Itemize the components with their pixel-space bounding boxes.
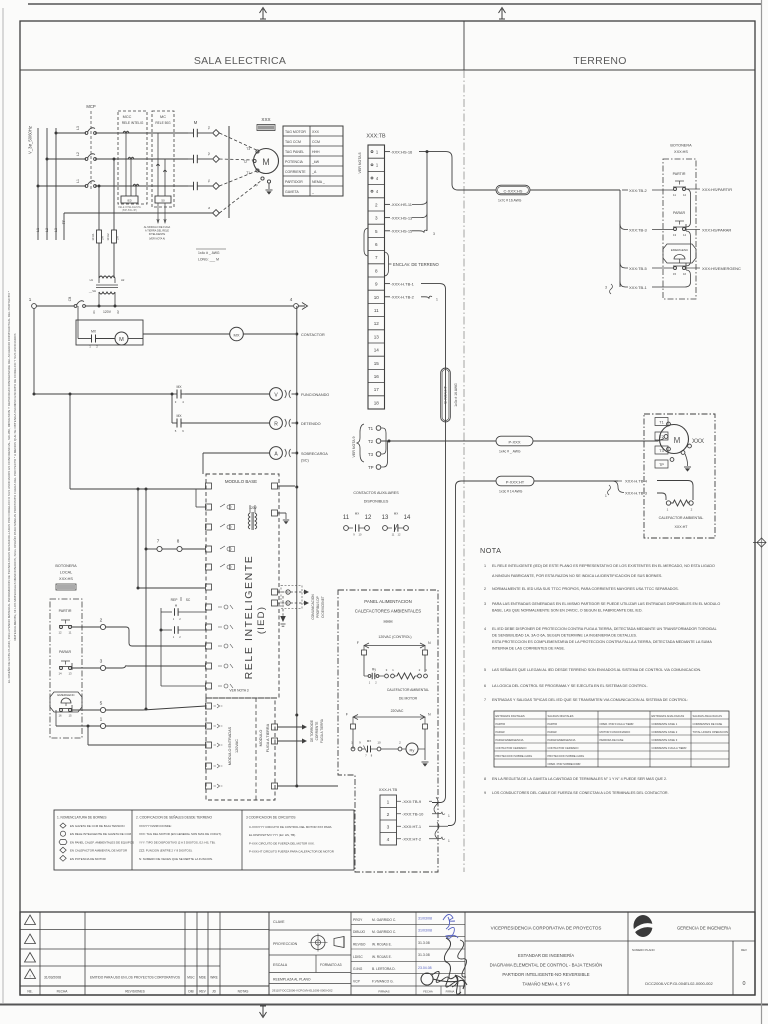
- svg-text:MX: MX: [234, 332, 240, 337]
- svg-text:EN CALEFACTOR AMBIENTAL DE MOT: EN CALEFACTOR AMBIENTAL DE MOTOR: [70, 849, 127, 853]
- svg-text:11: 11: [673, 193, 676, 197]
- HT pair split: [612, 481, 624, 493]
- internal input glyph: [218, 644, 233, 648]
- svg-text:F: F: [346, 713, 349, 717]
- wire 3 from PARAR: [72, 667, 101, 669]
- svg-text:1x4c # _ AWG: 1x4c # _ AWG: [499, 450, 521, 454]
- svg-text:PROTECCION SOBRE-CARG: PROTECCION SOBRE-CARG: [496, 754, 533, 758]
- svg-text:M: M: [194, 120, 198, 125]
- module terminal: [206, 546, 212, 552]
- breaker MCP linkage dashed: [90, 111, 92, 190]
- module divider dashed: [255, 698, 257, 800]
- svg-text:ESTA PROTECCION ES COMPLEMENTA: ESTA PROTECCION ES COMPLEMENTARIA DE LA …: [492, 640, 712, 644]
- registration mark top 2: [499, 8, 506, 20]
- svg-text:EL DISPOSITIVO YYY (EJ: HS, TB: EL DISPOSITIVO YYY (EJ: HS, TB).: [249, 833, 296, 837]
- svg-text:XXX:TB-1: XXX:TB-1: [629, 285, 648, 290]
- svg-text:MATERIALMENTE, NI LOS MATERIAL: MATERIALMENTE, NI LOS MATERIALES MENCION…: [12, 333, 17, 640]
- mini strip wire HT-2: [397, 838, 402, 840]
- revision rows: [20, 929, 269, 931]
- svg-text:EN PANEL CALEF. AMBIENTALES DE: EN PANEL CALEF. AMBIENTALES DE EQUIPOS: [70, 840, 134, 844]
- lamp A SOBRECARGA: [270, 447, 283, 460]
- svg-text:3: 3: [386, 668, 388, 672]
- zone divider dash-dot: [463, 70, 465, 872]
- svg-text:CLAVE: CLAVE: [273, 920, 285, 924]
- svg-text:1: 1: [605, 494, 607, 498]
- motor data table: [283, 126, 343, 196]
- svg-text:4: 4: [182, 400, 184, 404]
- svg-text:T2: T2: [243, 160, 247, 164]
- svg-text:1. NOMENCLATURA DE BORNES: 1. NOMENCLATURA DE BORNES: [57, 816, 107, 820]
- svg-text:REP: REP: [171, 598, 179, 602]
- svg-text:10: 10: [377, 741, 381, 745]
- lamp V FUNCIONANDO: [270, 388, 283, 401]
- contactor M pole: [193, 129, 195, 137]
- signature scribbles: [443, 914, 455, 929]
- EMERGENC mushroom button: [50, 692, 82, 712]
- module entradas/fuga dashed box: [206, 698, 275, 800]
- cable tag C-XXX:HS: [496, 185, 530, 195]
- svg-text:XXX:HS/PARTIR: XXX:HS/PARTIR: [702, 187, 732, 192]
- svg-text:DISPONIBLES: DISPONIBLES: [364, 500, 389, 504]
- breaker CB: [74, 305, 77, 308]
- right control bus vertical: [296, 306, 298, 489]
- svg-text:PARAR EMERGENCIA: PARAR EMERGENCIA: [548, 738, 576, 742]
- wire P-XXX:HT: [461, 480, 496, 482]
- svg-text:EMERGENC: EMERGENC: [57, 693, 75, 697]
- svg-text:DE TORROIDE: DE TORROIDE: [310, 720, 314, 742]
- mini strip wire TB-9: [397, 800, 402, 802]
- fuse 1FU1: [97, 230, 102, 243]
- svg-text:G.ING: G.ING: [353, 967, 363, 971]
- svg-text:2: 2: [399, 741, 401, 745]
- scan left edge: [2, 8, 4, 1003]
- motor M TERRENO: [660, 425, 689, 454]
- svg-text:EN POTENCIA DE MOTOR: EN POTENCIA DE MOTOR: [70, 857, 106, 861]
- bus L2 vertical: [46, 128, 48, 240]
- svg-text:CORRIENTE FASE 2: CORRIENTE FASE 2: [652, 730, 678, 734]
- gerencia header: [627, 912, 629, 941]
- svg-text:3: 3: [433, 232, 435, 236]
- svg-text:23.04.08: 23.04.08: [418, 966, 432, 970]
- svg-text:REVISIONES: REVISIONES: [125, 990, 145, 994]
- fuse 1FU2: [112, 230, 117, 243]
- module terminal: [206, 604, 212, 610]
- svg-text:12: 12: [398, 533, 401, 537]
- svg-text:MC: MC: [160, 115, 166, 119]
- svg-text:T2: T2: [659, 435, 663, 439]
- svg-text:TAMAÑO NEMA 4, 5 Y 6: TAMAÑO NEMA 4, 5 Y 6: [522, 982, 570, 987]
- svg-text:3: 3: [605, 286, 607, 290]
- wire XXX:HS-15: [385, 230, 391, 232]
- MX coil: [230, 327, 244, 341]
- module terminal: [206, 663, 212, 669]
- svg-text:XXX:HS/EMERGENC: XXX:HS/EMERGENC: [702, 266, 741, 271]
- svg-text:DETENIDO: DETENIDO: [301, 422, 321, 426]
- svg-text:NE.: NE.: [27, 990, 32, 994]
- ground/neutral wire G: [64, 212, 213, 214]
- svg-text:N: N: [428, 641, 431, 645]
- svg-text:1: 1: [29, 297, 32, 302]
- svg-text:HHH: HHH: [312, 150, 320, 154]
- svg-text:W. ROJAS E.: W. ROJAS E.: [372, 955, 392, 959]
- node L3 tap: [55, 132, 58, 135]
- svg-text:2: 2: [387, 812, 390, 818]
- bracket rows left: [364, 228, 368, 256]
- svg-text:EL RELE INTELIGENTE (IED) DE E: EL RELE INTELIGENTE (IED) DE ESTE PLANO …: [492, 564, 715, 568]
- svg-text:XXX:HT: XXX:HT: [675, 525, 689, 529]
- node L2 tap: [46, 158, 49, 161]
- svg-text:MGC: MGC: [187, 976, 195, 980]
- svg-text:XXX: TAG DEL MOTOR (EN GENERAL: XXX: TAG DEL MOTOR (EN GENERAL SON MAS D…: [139, 832, 222, 836]
- terreno left bus: [619, 190, 621, 287]
- svg-text:1x3c # 16 AWG: 1x3c # 16 AWG: [454, 383, 458, 407]
- svg-text:NEMA _: NEMA _: [312, 180, 325, 184]
- motor dashed box TERRENO: [644, 414, 715, 538]
- svg-text:INTERNA DE LAS CORRIENTES DE F: INTERNA DE LAS CORRIENTES DE FASE.: [492, 647, 565, 651]
- svg-text:2: 2: [484, 587, 486, 591]
- svg-text:LDISC: LDISC: [353, 955, 363, 959]
- breaker MCP pole: [85, 158, 88, 161]
- svg-text:(VER NOTA 4): (VER NOTA 4): [149, 238, 165, 241]
- svg-text:5: 5: [484, 668, 486, 672]
- svg-text:C-XXX/YYY CIRCUITO DE CONTROL: C-XXX/YYY CIRCUITO DE CONTROL DEL MOTOR …: [249, 825, 332, 829]
- wire XXX:TB-3: [620, 224, 628, 230]
- module terminal: [206, 584, 212, 590]
- svg-text:XXX:HS/PARAR: XXX:HS/PARAR: [702, 228, 731, 233]
- svg-text:EL DISEÑO DE ESTE PLANO, INCLU: EL DISEÑO DE ESTE PLANO, INCLUYENDO MATE…: [6, 290, 11, 683]
- heater control circuit: [363, 655, 365, 676]
- svg-text:Tp: Tp: [254, 183, 258, 187]
- svg-text:__VA: __VA: [88, 289, 96, 293]
- svg-text:F.VIVANCO G.: F.VIVANCO G.: [372, 979, 394, 983]
- cable tag C-XXX:HT vertical: [441, 368, 451, 422]
- svg-text:LONG: ___ M: LONG: ___ M: [198, 258, 219, 262]
- svg-text:1x4c # _ AWG: 1x4c # _ AWG: [198, 251, 220, 255]
- cable tag P-XXX: [496, 436, 533, 446]
- svg-text:-XXX:HS-16: -XXX:HS-16: [391, 149, 414, 154]
- svg-text:1: 1: [173, 635, 175, 639]
- svg-text:NORMALMENTE EL IED USA SUS TTC: NORMALMENTE EL IED USA SUS TTCC PROPIOS,…: [492, 587, 679, 591]
- svg-text:-XXX:HS-15: -XXX:HS-15: [391, 229, 414, 234]
- svg-text:1: 1: [667, 508, 669, 512]
- svg-text:L1: L1: [76, 179, 80, 183]
- projection symbol: [311, 936, 325, 950]
- svg-text:CALEFACTOR AMBIENTAL: CALEFACTOR AMBIENTAL: [659, 516, 704, 520]
- comm dashed outline: [281, 586, 302, 609]
- svg-text:TOTAL HORAS OPERACION: TOTAL HORAS OPERACION: [693, 730, 729, 734]
- toroid block 50: [155, 196, 171, 203]
- svg-text:XXX:TB-5: XXX:TB-5: [629, 266, 648, 271]
- svg-text:1x3c # 14 AWG: 1x3c # 14 AWG: [499, 490, 523, 494]
- svg-text:T1: T1: [207, 179, 211, 183]
- svg-text:XXX-H.TB: XXX-H.TB: [379, 787, 398, 792]
- svg-text:X2: X2: [116, 310, 120, 314]
- codelco logo: [634, 915, 653, 937]
- svg-text:10: 10: [374, 295, 380, 300]
- svg-text:PROYECCION: PROYECCION: [273, 942, 298, 946]
- panel terminals 220vac: [352, 717, 354, 724]
- svg-text:N: N: [428, 713, 431, 717]
- svg-text:3: 3: [175, 400, 177, 404]
- svg-text:FIRMAS: FIRMAS: [378, 990, 389, 994]
- nota 7 table: [494, 711, 729, 767]
- wire XXX-H.TB-2: [385, 296, 391, 298]
- svg-text:L3: L3: [76, 126, 80, 130]
- legend table: [54, 810, 354, 870]
- seal-in branch box: [76, 320, 143, 345]
- svg-text:4: 4: [376, 176, 379, 181]
- module terminal: [206, 683, 212, 689]
- clave block: [268, 912, 270, 995]
- svg-text:PARTIR: PARTIR: [673, 172, 686, 176]
- brace T1-TP: [357, 424, 364, 462]
- fuse 1FU2 drop from L2: [113, 158, 116, 161]
- svg-text:P-XXX CIRCUITO DE FUERZA DEL M: P-XXX CIRCUITO DE FUERZA DEL MOTOR XXX.: [249, 841, 315, 845]
- svg-text:PARAR: PARAR: [496, 730, 505, 734]
- svg-text:LA LOGICA DEL CONTROL SE PROGR: LA LOGICA DEL CONTROL SE PROGRAMA Y SE E…: [492, 684, 648, 688]
- svg-text:120V: 120V: [249, 506, 258, 510]
- wire rung2: [34, 393, 170, 395]
- svg-text:FORMATO A3: FORMATO A3: [320, 963, 342, 967]
- svg-text:18: 18: [374, 400, 380, 405]
- revision triangles: [25, 915, 36, 925]
- svg-text:PARAR: PARAR: [673, 211, 686, 215]
- svg-text:15: 15: [673, 272, 677, 276]
- svg-text:SALA ELECTRICA: SALA ELECTRICA: [194, 55, 286, 67]
- wire phase L3: [56, 132, 86, 134]
- svg-text:T2: T2: [368, 439, 374, 444]
- fuse 1FU1 drop from L1: [98, 185, 101, 188]
- svg-text:12: 12: [374, 321, 380, 326]
- svg-text:11: 11: [69, 631, 72, 635]
- selector contact M upper: [161, 611, 172, 613]
- HS wire labels right: [686, 188, 700, 190]
- numero plano cell: [627, 941, 629, 995]
- svg-text:JD: JD: [212, 990, 217, 994]
- svg-text:XXX: XXX: [261, 117, 270, 122]
- input opto glyph: [214, 743, 223, 747]
- cable tag P-XXX:HT: [496, 476, 534, 486]
- svg-text:G: G: [207, 207, 211, 209]
- module terminal: [206, 504, 212, 510]
- svg-text:L3: L3: [54, 228, 58, 232]
- module terminal: [206, 624, 212, 630]
- svg-text:V_3ø_50/60Hz: V_3ø_50/60Hz: [28, 126, 33, 154]
- svg-text:TAG CCM: TAG CCM: [285, 140, 301, 144]
- svg-text:1: 1: [448, 814, 450, 818]
- svg-text:12: 12: [58, 631, 62, 635]
- motor nameplate scribble box: [257, 125, 275, 131]
- svg-text:VER NOTA 3: VER NOTA 3: [229, 689, 248, 693]
- svg-text:CORRIENTE FASE 1: CORRIENTE FASE 1: [652, 722, 678, 726]
- wire to module 507: [196, 506, 206, 508]
- svg-text:VCP: VCP: [353, 979, 361, 983]
- svg-text:15: 15: [68, 714, 72, 718]
- svg-text:XXX:TB: XXX:TB: [366, 134, 386, 140]
- svg-text:M: M: [175, 604, 178, 608]
- signature block: [350, 912, 352, 995]
- svg-text:A: A: [274, 452, 278, 458]
- terreno right bus jogs: [686, 189, 691, 227]
- svg-text:CCM: CCM: [312, 140, 320, 144]
- MODULO BASE dashed box: [206, 474, 279, 698]
- svg-text:_kW: _kW: [311, 160, 320, 164]
- svg-text:Ry: Ry: [372, 668, 376, 672]
- wire XXX:HS-13: [385, 217, 391, 219]
- internal relay contact glyph: [220, 524, 231, 529]
- svg-text:L2: L2: [45, 228, 49, 232]
- svg-text:13: 13: [374, 334, 380, 339]
- module input terminal: [206, 703, 212, 709]
- wire XXX:TB-2: [622, 189, 628, 191]
- svg-text:T3: T3: [659, 449, 663, 453]
- svg-text:31.3.08: 31.3.08: [418, 941, 430, 945]
- svg-text:LAS SEÑALES QUE LLEGAN AL IED: LAS SEÑALES QUE LLEGAN AL IED DESDE TERR…: [492, 667, 701, 672]
- svg-text:PARTIR: PARTIR: [496, 722, 506, 726]
- svg-text:MODULO ENTRADAS: MODULO ENTRADAS: [228, 726, 232, 765]
- svg-text:MX: MX: [394, 512, 399, 516]
- svg-text:RELE 50G: RELE 50G: [155, 121, 171, 125]
- svg-text:4: 4: [387, 837, 390, 843]
- svg-text:13: 13: [382, 515, 389, 521]
- svg-text:12: 12: [683, 193, 687, 197]
- svg-text:FUGA A TIERRA: FUGA A TIERRA: [320, 718, 324, 743]
- svg-text:291107-DCC2006-VCP.GI/N-EL1006: 291107-DCC2006-VCP.GI/N-EL1006-0000-002: [272, 989, 333, 993]
- svg-text:TP: TP: [659, 463, 664, 467]
- svg-text:T3: T3: [368, 452, 374, 457]
- svg-text:C-XXX:HT: C-XXX:HT: [444, 385, 448, 403]
- svg-text:9: 9: [484, 791, 486, 795]
- svg-text:1FU1: 1FU1: [91, 233, 95, 241]
- Ry coil circuit: [352, 729, 354, 749]
- registration mark right: [753, 538, 766, 547]
- svg-text:2: 2: [179, 635, 181, 639]
- wire P-XXX power to motor: [381, 440, 496, 442]
- contactor coil M: [115, 332, 128, 345]
- svg-text:11: 11: [343, 515, 350, 521]
- revision table verticals: [39, 912, 41, 995]
- wire XXX:HS-16: [385, 151, 391, 153]
- svg-text:3: 3: [387, 825, 390, 831]
- svg-text:1: 1: [392, 668, 394, 672]
- svg-text:220VAC: 220VAC: [391, 709, 404, 713]
- svg-text:CONTACTOR CERRADO: CONTACTOR CERRADO: [548, 746, 579, 750]
- svg-text:4: 4: [290, 297, 293, 302]
- svg-text:EN RELE INTELIGENTE DE GAVETA: EN RELE INTELIGENTE DE GAVETA DE CCM: [70, 832, 132, 836]
- svg-text:M. GARRIDO C.: M. GARRIDO C.: [372, 930, 396, 934]
- svg-text:VICEPRESIDENCIA CORPORATIVA DE: VICEPRESIDENCIA CORPORATIVA DE PROYECTOS: [491, 926, 602, 931]
- svg-text:MX: MX: [367, 739, 372, 743]
- IED current input block: [121, 196, 138, 203]
- svg-text:PROFIBUS DP: PROFIBUS DP: [316, 596, 320, 618]
- svg-text:7: 7: [375, 255, 378, 260]
- svg-text:YYY: TIPO DE DISPOSITIVO (2 A: YYY: TIPO DE DISPOSITIVO (2 A 3 DIGITOS,…: [139, 840, 216, 844]
- svg-text:-XXX-H.TB-1: -XXX-H.TB-1: [391, 281, 415, 286]
- wires to heater: [657, 481, 693, 501]
- bus L3 vertical: [55, 128, 57, 240]
- input opto glyph: [214, 784, 223, 788]
- svg-text:3: 3: [484, 602, 486, 606]
- svg-text:_: _: [311, 190, 314, 194]
- svg-text:4: 4: [425, 668, 427, 672]
- comm bus dashed arrows: [278, 591, 306, 593]
- svg-text:ENTRADAS Y SALIDAS TIPICAS DEL: ENTRADAS Y SALIDAS TIPICAS DEL IED QUE S…: [492, 698, 688, 702]
- svg-text:DIB: DIB: [188, 990, 193, 994]
- scan top edge: [28, 3, 762, 5]
- svg-text:SOBRECARGA: SOBRECARGA: [301, 452, 328, 456]
- svg-text:PARAR: PARAR: [548, 730, 557, 734]
- panel alimentacion dash-dot box: [338, 590, 438, 872]
- svg-text:2. CODIFICACION DE SEÑALES DES: 2. CODIFICACION DE SEÑALES DESDE TERRENO: [136, 815, 212, 820]
- svg-text:(SC): (SC): [301, 459, 310, 463]
- wire phase L1: [38, 185, 86, 187]
- svg-text:5: 5: [375, 229, 378, 234]
- svg-text:EMITIDO PARA USO EN LOS PROYEC: EMITIDO PARA USO EN LOS PROYECTOS CORPOR…: [90, 976, 180, 980]
- svg-text:EN GAVETA DE CCM DE BAJA TENSI: EN GAVETA DE CCM DE BAJA TENSION: [70, 824, 124, 828]
- wire XXX:HS-11: [385, 203, 391, 205]
- svg-text:XXX:HS: XXX:HS: [59, 577, 73, 581]
- input opto glyph: [214, 724, 223, 728]
- input opto glyph: [214, 764, 223, 768]
- svg-text:CONTACTOR: CONTACTOR: [301, 333, 325, 337]
- wire 5 from EMERGENC: [72, 709, 101, 711]
- svg-text:-XXX:TB-10: -XXX:TB-10: [402, 812, 424, 817]
- svg-text:DE MOTOR: DE MOTOR: [399, 697, 418, 701]
- svg-text:POTENCIA: POTENCIA: [285, 160, 304, 164]
- svg-text:XXX: XXX: [692, 439, 704, 445]
- module ground symbol: [283, 519, 289, 521]
- svg-text:2: 2: [375, 681, 377, 685]
- svg-text:CONTACTOR CERRADO: CONTACTOR CERRADO: [496, 746, 527, 750]
- svg-text:120VAC (CONTROL): 120VAC (CONTROL): [378, 635, 411, 639]
- svg-text:(50P-50G-3P): (50P-50G-3P): [122, 209, 137, 212]
- botonera local dash-dot box: [50, 599, 82, 738]
- svg-text:VER NOTA 9: VER NOTA 9: [352, 437, 356, 458]
- branch down to rung3: [171, 394, 173, 423]
- svg-text:5: 5: [175, 429, 177, 433]
- svg-text:CORRIENTE FASE 3: CORRIENTE FASE 3: [652, 738, 678, 742]
- svg-text:2: 2: [691, 508, 693, 512]
- PARAR pushbutton contact NC: [61, 660, 70, 662]
- svg-text:M: M: [674, 436, 681, 445]
- module terminal: [206, 564, 212, 570]
- svg-text:MX: MX: [176, 385, 182, 389]
- svg-text:15: 15: [374, 361, 380, 366]
- left control bus down: [33, 308, 35, 394]
- svg-text:16: 16: [58, 714, 62, 718]
- svg-text:14: 14: [374, 348, 380, 353]
- svg-text:L2: L2: [76, 152, 80, 156]
- svg-text:1: 1: [100, 717, 103, 723]
- svg-text:PROTECCION SOBRE-CARG: PROTECCION SOBRE-CARG: [548, 754, 585, 758]
- svg-text:!: !: [29, 974, 30, 979]
- contactor M pole: [193, 182, 195, 190]
- module input terminal: [206, 783, 212, 789]
- vicepresidencia header: [464, 912, 466, 995]
- svg-text:REV: REV: [199, 990, 206, 994]
- svg-text:Ry: Ry: [410, 747, 415, 752]
- wire XXX:TB-1: [620, 282, 628, 288]
- svg-text:31/03/08: 31/03/08: [418, 929, 432, 933]
- right bus continuation down: [296, 489, 298, 786]
- svg-text:3: 3: [375, 216, 378, 221]
- svg-text:EMERGENC: EMERGENC: [671, 248, 689, 252]
- wire rung4 overload lamp: [203, 452, 270, 454]
- svg-text:FECHA: FECHA: [423, 990, 433, 994]
- internal input glyph: [218, 625, 233, 629]
- wire to MX coil: [143, 333, 230, 335]
- svg-text:BOTONERA: BOTONERA: [670, 144, 692, 148]
